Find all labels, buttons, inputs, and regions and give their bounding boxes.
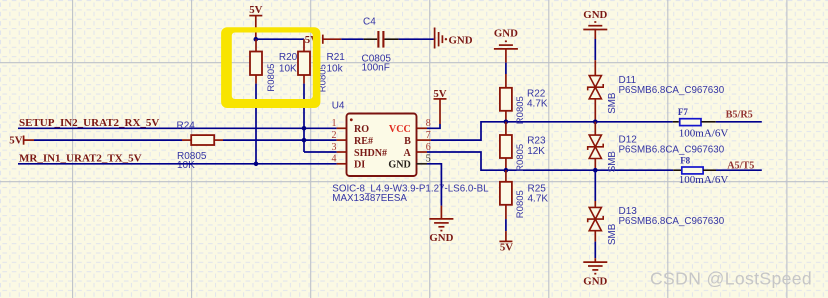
pin 8 (417, 127, 428, 129)
wire gnd to R22 (505, 63, 507, 74)
svg-text:C4: C4 (363, 17, 376, 28)
svg-text:B5/R5: B5/R5 (726, 109, 753, 120)
svg-text:R0805: R0805 (266, 64, 277, 92)
svg-text:A5/T5: A5/T5 (727, 160, 754, 171)
svg-text:F8: F8 (680, 156, 690, 166)
power port 5V (above U4 VCC) (433, 88, 446, 124)
fuse F8 (673, 156, 728, 187)
svg-text:R0805: R0805 (515, 190, 526, 218)
wire: 5V junction to R21 top (256, 38, 304, 40)
wire A row to D13 (594, 170, 596, 201)
resistor R24 (177, 121, 224, 172)
svg-text:10K: 10K (279, 64, 297, 75)
node D11/B row (593, 120, 598, 125)
svg-text:10K: 10K (177, 160, 195, 171)
svg-text:3: 3 (332, 142, 337, 153)
svg-text:F7: F7 (678, 107, 688, 117)
svg-text:GND: GND (583, 275, 607, 287)
svg-text:GND: GND (494, 27, 518, 39)
wire B (pin7) up to bus row (431, 122, 673, 140)
wire: C4 to GND (399, 38, 434, 40)
svg-text:4.7K: 4.7K (527, 98, 548, 109)
svg-text:DI: DI (354, 160, 365, 171)
svg-text:1: 1 (332, 118, 337, 129)
resistor R21 (298, 39, 345, 92)
node RE#/R21 junction (302, 138, 307, 143)
wire D13 to gnd (594, 242, 596, 259)
svg-text:SMB: SMB (607, 92, 618, 114)
svg-text:10k: 10k (327, 64, 344, 75)
svg-text:U4: U4 (332, 101, 345, 112)
IC U4 MAX13487EESA (332, 101, 490, 205)
svg-text:R24: R24 (177, 121, 196, 132)
resistor R22 (500, 74, 548, 124)
svg-text:100mA/6V: 100mA/6V (679, 128, 729, 140)
svg-text:SMB: SMB (607, 151, 618, 173)
svg-text:100mA/6V: 100mA/6V (679, 174, 729, 186)
svg-text:GND: GND (388, 160, 410, 171)
ground (above D11) (583, 9, 607, 39)
node R23/A row (504, 168, 509, 173)
svg-text:MR_IN1_URAT2_TX_5V: MR_IN1_URAT2_TX_5V (19, 153, 142, 165)
pin 6 (417, 151, 428, 153)
resistor R20 (250, 39, 298, 91)
svg-text:5V: 5V (500, 241, 513, 253)
svg-text:5V: 5V (9, 135, 22, 147)
TVS diode D12 (588, 122, 725, 173)
power port 5V (top, above R20) (249, 4, 262, 39)
svg-text:SHDN#: SHDN# (354, 148, 387, 159)
power port 5V (below R25) (499, 231, 513, 253)
resistor R23 (500, 122, 546, 172)
svg-text:5V: 5V (249, 4, 262, 16)
wire: R20 bottom to DI row (255, 84, 257, 164)
wire A (pin6) down to bus row (427, 152, 673, 170)
ground (below D13) (583, 258, 607, 287)
svg-text:RE#: RE# (354, 136, 373, 147)
pin 4 (337, 163, 347, 165)
yellow highlight box (221, 27, 320, 108)
wire SHDN bend (304, 151, 337, 153)
svg-text:RO: RO (354, 124, 369, 135)
svg-text:R20: R20 (279, 52, 298, 63)
node RX/R21 junction (302, 126, 307, 131)
pin 5 (417, 163, 428, 165)
ground (above R22) (494, 27, 518, 62)
svg-text:R23: R23 (527, 135, 546, 146)
ground (sideways, right of C4) (435, 28, 443, 49)
wire RX row (18, 127, 337, 129)
wire TX row (18, 163, 337, 165)
pin 2 (337, 139, 347, 141)
capacitor C4 (362, 17, 399, 74)
wire F8 out (716, 169, 762, 171)
svg-text:SMB: SMB (607, 223, 618, 245)
pin 7 (417, 139, 432, 141)
svg-text:4: 4 (332, 154, 337, 165)
wire R25 to 5V port (505, 219, 507, 231)
wire GND (pin5) (427, 164, 441, 206)
power port 5V (feeds C4 branch) (305, 34, 342, 46)
svg-text:VCC: VCC (389, 124, 411, 135)
fuse F7 (673, 107, 728, 140)
power port 5V (left edge) (9, 135, 34, 147)
wire 5V to R24 (34, 139, 182, 141)
svg-text:P6SMB6.8CA_C967630: P6SMB6.8CA_C967630 (619, 144, 725, 155)
node TX/R20 junction (254, 162, 259, 167)
TVS diode D11 (588, 60, 725, 120)
resistor R25 (500, 170, 549, 219)
wire VCC to 5V (427, 124, 440, 128)
wire R24 to RE# (223, 139, 337, 141)
svg-text:4.7K: 4.7K (528, 194, 549, 205)
svg-text:7: 7 (426, 130, 431, 141)
pin 3 (337, 151, 347, 153)
svg-text:GND: GND (429, 232, 453, 244)
wire: R21 bottom down to SHDN row (303, 84, 305, 152)
svg-text:R21: R21 (327, 52, 346, 63)
svg-text:R0805: R0805 (515, 96, 526, 124)
svg-text:CSDN @LostSpeed: CSDN @LostSpeed (650, 269, 812, 289)
wire gnd to D11 (594, 39, 596, 60)
wire: port to C4 (341, 38, 363, 40)
TVS diode D13 (588, 201, 725, 245)
svg-text:P6SMB6.8CA_C967630: P6SMB6.8CA_C967630 (619, 85, 725, 96)
pin 1 (337, 127, 347, 129)
svg-text:2: 2 (332, 130, 337, 141)
svg-text:GND: GND (583, 9, 607, 21)
svg-text:12K: 12K (527, 146, 545, 157)
svg-text:100nF: 100nF (362, 63, 390, 74)
wire F7 out (716, 121, 762, 123)
svg-text:MAX13487EESA: MAX13487EESA (332, 193, 407, 204)
node D12/A row (593, 168, 598, 173)
svg-text:P6SMB6.8CA_C967630: P6SMB6.8CA_C967630 (619, 216, 725, 227)
svg-text:GND: GND (449, 35, 473, 47)
node R22/B row (504, 120, 509, 125)
node 5V junction (254, 37, 259, 42)
svg-text:SETUP_IN2_URAT2_RX_5V: SETUP_IN2_URAT2_RX_5V (19, 117, 159, 129)
svg-text:R0805: R0805 (515, 144, 526, 172)
ground (below U4) (429, 206, 453, 244)
svg-text:B: B (404, 136, 411, 147)
svg-text:A: A (404, 148, 412, 159)
